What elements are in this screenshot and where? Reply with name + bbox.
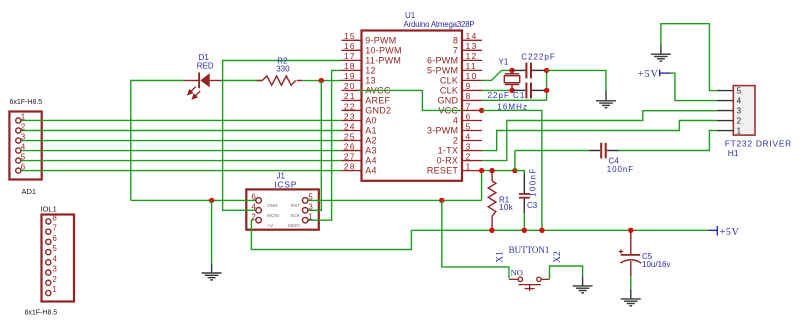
pin 1 of H1 <box>717 130 733 132</box>
pin 5 of IOL1 <box>46 250 51 255</box>
wire H1 pin5 to ground <box>661 24 717 91</box>
pin 2 of IOL1 <box>46 280 51 285</box>
junction RESET C4 C3 tap <box>512 168 517 173</box>
capacitor C2 22pF <box>512 69 525 71</box>
svg-text:10: 10 <box>466 71 478 81</box>
ground C5 <box>630 289 632 299</box>
svg-text:+5V: +5V <box>638 69 659 80</box>
pin 8 GND of U1 <box>462 99 482 101</box>
svg-text:27: 27 <box>344 151 356 161</box>
wire C4 left to reset <box>514 151 516 171</box>
pin 4 2 of U1 <box>462 140 482 142</box>
svg-text:25: 25 <box>344 131 356 141</box>
svg-text:7: 7 <box>466 101 472 111</box>
pin 3 of AD1 <box>16 138 21 143</box>
pin 5 3-PWM of U1 <box>462 130 482 132</box>
connector IOL1 <box>42 215 75 302</box>
svg-text:13: 13 <box>466 41 478 51</box>
svg-text:8: 8 <box>453 35 458 45</box>
svg-text:GND: GND <box>437 96 458 106</box>
svg-text:A1: A1 <box>365 126 377 136</box>
op-amp U1 body Arduino Atmega328P <box>362 31 463 181</box>
wire AD1 pin2 to U1 pin24 A1 <box>21 130 342 132</box>
svg-text:1: 1 <box>737 126 742 135</box>
junction C2 right <box>544 68 549 73</box>
wire reset vertical to U1 RESET <box>481 171 483 201</box>
wire U1 0-RX to H1 pin3 <box>482 111 717 161</box>
svg-text:6: 6 <box>466 111 472 121</box>
svg-text:23: 23 <box>344 111 356 121</box>
svg-text:NO: NO <box>511 268 523 278</box>
svg-text:0-RX: 0-RX <box>437 156 459 166</box>
pin 6 of IOL1 <box>46 239 51 244</box>
LED D1 <box>184 80 198 82</box>
pin 2 of H1 <box>717 120 733 122</box>
ground button <box>582 276 584 286</box>
wire AVCC internal to VCC <box>359 90 462 110</box>
svg-text:GND2: GND2 <box>365 106 391 116</box>
svg-text:5: 5 <box>737 87 742 96</box>
svg-text:6x1F-H8.5: 6x1F-H8.5 <box>10 99 43 106</box>
svg-text:18: 18 <box>344 61 356 71</box>
svg-text:21: 21 <box>344 91 356 101</box>
pin 2 of AD1 <box>16 128 21 133</box>
svg-text:9-PWM: 9-PWM <box>365 35 396 45</box>
svg-text:16: 16 <box>344 41 356 51</box>
svg-text:3: 3 <box>52 265 57 274</box>
svg-text:3-PWM: 3-PWM <box>427 126 458 136</box>
pin 4 of IOL1 <box>46 260 51 265</box>
svg-text:MISO: MISO <box>288 223 300 228</box>
pin 4 MOSI of J1 <box>256 208 262 214</box>
svg-text:AD1: AD1 <box>22 187 37 196</box>
svg-text:RED: RED <box>197 62 214 71</box>
wire C4 to H1 pin1 <box>619 131 717 151</box>
svg-text:5: 5 <box>466 121 472 131</box>
svg-text:22pF C1: 22pF C1 <box>488 91 526 100</box>
ground top right <box>660 44 662 54</box>
pin 25 A2 of U1 <box>342 140 362 142</box>
pin 14 8 of U1 <box>462 39 482 41</box>
svg-text:GND: GND <box>267 203 278 208</box>
svg-text:11: 11 <box>466 61 477 71</box>
capacitor C4 100nF <box>589 150 600 152</box>
svg-text:8: 8 <box>52 213 57 222</box>
svg-text:8x1F-H8.5: 8x1F-H8.5 <box>25 310 58 317</box>
svg-text:X2: X2 <box>553 251 563 263</box>
wire C5 to ground <box>630 276 632 289</box>
switch BUTTON1 <box>509 278 518 280</box>
svg-text:+5V: +5V <box>720 227 740 238</box>
svg-text:1: 1 <box>21 112 26 121</box>
svg-text:7: 7 <box>52 224 57 233</box>
pin 11 5-PWM of U1 <box>462 69 482 71</box>
pin 8 of IOL1 <box>46 219 51 224</box>
wire junction to ground <box>211 200 213 263</box>
wire D1 to MOSI vertical <box>222 80 263 82</box>
svg-text:6: 6 <box>21 163 26 172</box>
junction bus C5 <box>628 228 633 233</box>
svg-text:3: 3 <box>21 133 26 142</box>
pin 5 of H1 <box>717 90 733 92</box>
pin 2 +V of J1 <box>256 217 262 223</box>
pin 18 12 of U1 <box>342 69 362 71</box>
wire AD1 pin1 to U1 pin23 A0 <box>21 119 342 121</box>
junction RESET A <box>479 168 484 173</box>
junction bus C3 <box>522 228 527 233</box>
pin 28 A4 of U1 <box>342 170 362 172</box>
svg-text:A3: A3 <box>365 146 377 156</box>
svg-text:17: 17 <box>344 51 356 61</box>
svg-text:+V: +V <box>267 223 274 228</box>
crystal Y1 <box>511 70 513 73</box>
svg-text:A2: A2 <box>365 136 377 146</box>
svg-text:A4: A4 <box>365 166 377 176</box>
pin 4 of H1 <box>717 100 733 102</box>
pin 4 of AD1 <box>16 148 21 153</box>
wire U1 pin9 CLK to crystal bottom <box>482 89 512 91</box>
pin 1 of IOL1 <box>46 290 51 295</box>
wire U1 RESET row <box>482 170 515 172</box>
pin 1 RESET of U1 <box>462 170 482 172</box>
svg-text:12: 12 <box>466 51 478 61</box>
wire MOSI net vertical pin17 to ICSP pin4 <box>223 61 342 211</box>
pin 6 4 of U1 <box>462 119 482 121</box>
svg-text:MOSI: MOSI <box>267 213 279 218</box>
svg-text:C3: C3 <box>527 201 538 210</box>
pin 3 1-TX of U1 <box>462 150 482 152</box>
svg-text:11-PWM: 11-PWM <box>365 55 401 65</box>
svg-text:10-PWM: 10-PWM <box>365 45 402 55</box>
wire AD1 pin3 to U1 pin25 A2 <box>21 140 342 142</box>
pin 9 CLK of U1 <box>462 89 482 91</box>
connector J1 ICSP body <box>246 189 318 229</box>
pin 6 of AD1 <box>16 168 21 173</box>
svg-text:FT232 DRIVER: FT232 DRIVER <box>725 139 792 149</box>
wire LED cathode net <box>131 81 185 201</box>
svg-text:4: 4 <box>21 143 26 152</box>
svg-text:24: 24 <box>344 121 356 131</box>
wire R2 to U1 pin19 <box>302 80 341 82</box>
pin 24 A1 of U1 <box>342 130 362 132</box>
connector H1 FT232 DRIVER <box>733 86 755 136</box>
wire crystal caps right side <box>546 70 548 100</box>
svg-text:13: 13 <box>365 75 376 85</box>
wire AD1 pin5 to U1 pin27 A4 <box>21 160 342 162</box>
svg-text:8: 8 <box>466 91 472 101</box>
svg-text:10u/16v: 10u/16v <box>642 260 670 269</box>
svg-text:5: 5 <box>21 153 26 162</box>
svg-text:20: 20 <box>344 81 356 91</box>
ground near ICSP <box>211 263 213 273</box>
svg-text:1-TX: 1-TX <box>438 146 459 156</box>
pin 3 SCK of J1 <box>302 208 308 214</box>
wire SCK vertical to ICSP pin3 <box>308 81 321 211</box>
svg-text:Arduino Atmega328P: Arduino Atmega328P <box>404 20 475 29</box>
junction GND ground tap <box>209 198 214 203</box>
pin 13 7 of U1 <box>462 49 482 51</box>
pin 23 A0 of U1 <box>342 119 362 121</box>
svg-text:5-PWM: 5-PWM <box>427 65 458 75</box>
pin 19 13 of U1 <box>342 79 362 81</box>
wire AD1 pin6 to U1 pin28 A4 <box>21 170 342 172</box>
pin 15 9-PWM of U1 <box>342 39 362 41</box>
svg-text:26: 26 <box>344 141 356 151</box>
pin 3 of H1 <box>717 110 733 112</box>
svg-text:100nF: 100nF <box>607 165 634 174</box>
svg-text:RST: RST <box>291 203 300 208</box>
wire RESET to C3 <box>515 171 524 174</box>
pin 20 AVCC of U1 <box>342 89 362 91</box>
svg-text:7: 7 <box>453 45 458 55</box>
pin 1 of AD1 <box>16 118 21 123</box>
junction bus R1 <box>489 228 494 233</box>
capacitor C5 electrolytic <box>630 230 632 254</box>
svg-text:4: 4 <box>453 116 458 126</box>
pin 27 A4 of U1 <box>342 160 362 162</box>
wire VCC to +5V bus <box>482 110 542 230</box>
pin 1 MISO of J1 <box>302 217 308 223</box>
junction RST button tap <box>439 198 444 203</box>
junction bus VCC <box>539 228 544 233</box>
svg-text:6: 6 <box>52 234 57 243</box>
junction R2 SCK node <box>319 78 324 83</box>
junction RESET R1 tap <box>489 168 494 173</box>
pin 5 of AD1 <box>16 158 21 163</box>
pin 26 A3 of U1 <box>342 150 362 152</box>
svg-text:4: 4 <box>737 96 742 105</box>
pin 2 0-RX of U1 <box>462 160 482 162</box>
svg-text:AREF: AREF <box>365 96 390 106</box>
svg-text:CLK: CLK <box>440 86 458 96</box>
resistor R2 <box>257 80 263 82</box>
wire +5V to H1 pin4 <box>671 73 717 101</box>
svg-text:330: 330 <box>276 65 290 74</box>
svg-text:A0: A0 <box>365 116 377 126</box>
svg-text:9: 9 <box>466 81 472 91</box>
svg-text:14: 14 <box>466 31 478 41</box>
svg-text:10k: 10k <box>499 203 514 212</box>
svg-text:6-PWM: 6-PWM <box>427 55 458 65</box>
capacitor C1 22pF <box>512 89 525 91</box>
svg-text:12: 12 <box>365 65 376 75</box>
pin 21 AREF of U1 <box>342 99 362 101</box>
wire U1 pin10 CLK to crystal top <box>482 70 512 80</box>
svg-text:15: 15 <box>344 31 356 41</box>
svg-text:SCK: SCK <box>290 213 300 218</box>
ground crystal net <box>605 91 607 101</box>
wire AD1 pin4 to U1 pin26 A3 <box>21 150 342 152</box>
svg-text:1: 1 <box>466 161 472 171</box>
wire ICSP +V to +5V bus <box>251 220 411 249</box>
supply +5V right <box>708 229 717 231</box>
svg-text:19: 19 <box>344 71 356 81</box>
svg-text:3: 3 <box>737 106 742 115</box>
pin 12 6-PWM of U1 <box>462 59 482 61</box>
pin 16 10-PWM of U1 <box>342 49 362 51</box>
svg-text:22: 22 <box>344 101 356 111</box>
svg-text:ICSP: ICSP <box>274 179 297 189</box>
svg-text:RESET: RESET <box>427 166 459 176</box>
wire caps to U1 pin8 GND <box>482 99 547 101</box>
wire U1 pin18 to ICSP pin1 MISO <box>308 70 341 220</box>
capacitor C3 100nF <box>523 174 525 194</box>
svg-text:CLK: CLK <box>440 75 458 85</box>
svg-text:28: 28 <box>344 161 356 171</box>
svg-text:C222pF: C222pF <box>521 53 555 62</box>
svg-text:2: 2 <box>52 275 57 284</box>
wire +5V bus <box>411 229 708 231</box>
wire reset junction to button X1 <box>442 200 509 278</box>
wire GND to ICSP pin6 <box>131 199 256 201</box>
svg-text:1: 1 <box>308 212 313 221</box>
pin 17 11-PWM of U1 <box>342 59 362 61</box>
junction U1 pin7 VCC <box>479 108 484 113</box>
svg-text:6: 6 <box>251 193 256 202</box>
wire to ground right of caps <box>547 70 606 91</box>
svg-text:2: 2 <box>466 151 472 161</box>
pin 6 GND of J1 <box>256 198 262 204</box>
svg-text:4: 4 <box>251 203 256 212</box>
connector AD1 body <box>9 112 41 180</box>
pin 10 CLK of U1 <box>462 79 482 81</box>
svg-text:2: 2 <box>21 123 26 132</box>
svg-text:A4: A4 <box>365 156 377 166</box>
junction crystal bottom <box>509 88 514 93</box>
resistor R1 10k <box>491 171 493 181</box>
wire ICSP RST to reset net <box>308 199 481 201</box>
pin 22 GND2 of U1 <box>342 109 362 111</box>
pin 5 RST of J1 <box>302 198 308 204</box>
svg-text:2: 2 <box>737 116 742 125</box>
pin 7 of IOL1 <box>46 229 51 234</box>
pin 3 of IOL1 <box>46 270 51 275</box>
svg-text:4: 4 <box>52 254 57 263</box>
svg-text:3: 3 <box>308 203 313 212</box>
svg-text:BUTTON1: BUTTON1 <box>509 245 550 255</box>
svg-text:X1: X1 <box>496 251 506 263</box>
svg-text:U1: U1 <box>405 11 416 20</box>
svg-text:IOL1: IOL1 <box>41 205 57 214</box>
svg-text:H1: H1 <box>728 148 739 158</box>
wire U1 1-TX to H1 pin2 <box>482 121 717 151</box>
svg-text:2: 2 <box>453 136 458 146</box>
svg-text:5: 5 <box>52 244 57 253</box>
svg-text:4: 4 <box>466 131 472 141</box>
svg-text:100nF: 100nF <box>529 167 538 197</box>
junction C1 right <box>544 88 549 93</box>
wire button X2 to ground <box>550 266 583 279</box>
junction crystal top <box>509 68 514 73</box>
svg-text:3: 3 <box>466 141 472 151</box>
svg-text:Y1: Y1 <box>499 57 509 66</box>
svg-text:1: 1 <box>52 285 57 294</box>
pin 7 VCC of U1 <box>462 109 482 111</box>
